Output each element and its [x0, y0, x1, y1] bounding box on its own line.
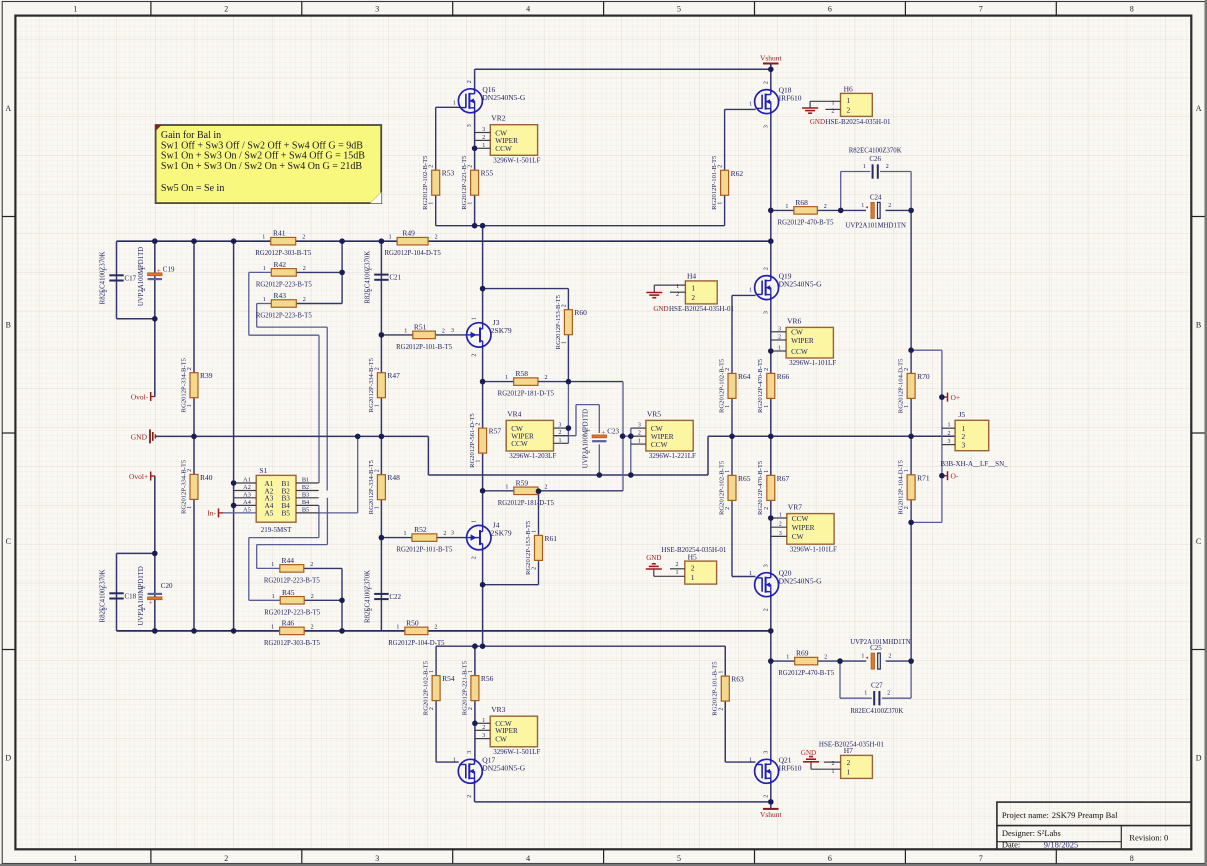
- svg-text:2: 2: [187, 367, 193, 370]
- svg-text:1: 1: [103, 268, 109, 271]
- svg-text:2: 2: [367, 608, 373, 611]
- wire Q17 gate loop: [436, 645, 725, 647]
- wire C24 line: [841, 209, 866, 211]
- svg-text:A5: A5: [243, 506, 251, 513]
- svg-text:DN2540N5-G: DN2540N5-G: [779, 577, 822, 586]
- potentiometer VR2: [490, 125, 537, 156]
- svg-text:RG2012P-470-B-T5: RG2012P-470-B-T5: [778, 219, 834, 226]
- wire R63 branch: [724, 646, 726, 675]
- svg-text:R50: R50: [406, 618, 419, 627]
- svg-text:R68: R68: [795, 198, 808, 207]
- resistor R46: [280, 627, 305, 635]
- svg-text:1: 1: [271, 562, 274, 568]
- svg-text:R82EC4100Z370K: R82EC4100Z370K: [364, 570, 371, 623]
- wire R44 R45 right link: [304, 567, 342, 569]
- svg-text:2: 2: [847, 758, 851, 767]
- svg-text:Sw5 On = Se in: Sw5 On = Se in: [161, 183, 224, 194]
- svg-text:RG2012P-104-D-T5: RG2012P-104-D-T5: [384, 250, 441, 257]
- svg-text:GND: GND: [131, 432, 148, 441]
- svg-text:C18: C18: [125, 592, 137, 600]
- svg-text:C24: C24: [870, 193, 882, 201]
- svg-text:2: 2: [778, 335, 781, 341]
- svg-text:1: 1: [764, 470, 770, 473]
- wire C27 loop: [839, 661, 841, 698]
- wire R70 top jog: [911, 349, 942, 351]
- svg-text:UVP2A101MHD1TN: UVP2A101MHD1TN: [850, 639, 911, 646]
- svg-text:3: 3: [451, 531, 454, 537]
- svg-text:RG2012P-102-B-T5: RG2012P-102-B-T5: [422, 155, 429, 210]
- svg-text:RG2012P-303-B-T5: RG2012P-303-B-T5: [264, 640, 320, 647]
- wire C21 R47 R48 spine: [380, 241, 382, 631]
- svg-text:1: 1: [505, 484, 508, 490]
- svg-text:R52: R52: [414, 525, 427, 534]
- svg-text:1: 1: [374, 404, 380, 407]
- wire Q16 gate loop: [436, 106, 460, 108]
- net Vshunt bottom: [763, 808, 779, 810]
- svg-text:3: 3: [778, 326, 781, 332]
- wire C19 branch: [154, 241, 156, 396]
- resistor R68: [794, 207, 817, 215]
- svg-text:WIPER: WIPER: [792, 523, 815, 532]
- svg-text:2: 2: [764, 507, 770, 510]
- svg-text:CW: CW: [792, 532, 804, 541]
- svg-text:2: 2: [561, 304, 567, 307]
- svg-text:1: 1: [141, 586, 147, 589]
- wire C23 branch: [598, 405, 600, 433]
- svg-text:2: 2: [468, 165, 474, 168]
- svg-text:2: 2: [374, 367, 380, 370]
- svg-text:RG2012P-101-B-T5: RG2012P-101-B-T5: [396, 344, 452, 351]
- svg-text:RG2012P-470-B-T5: RG2012P-470-B-T5: [757, 460, 764, 515]
- ground: [646, 292, 662, 294]
- svg-text:B: B: [6, 321, 11, 330]
- svg-text:CCW: CCW: [495, 144, 512, 153]
- resistor R60: [564, 310, 572, 335]
- wire O- jog: [941, 445, 943, 523]
- svg-text:2: 2: [434, 624, 437, 630]
- svg-text:1: 1: [904, 469, 910, 472]
- svg-text:2: 2: [311, 624, 314, 630]
- svg-text:2: 2: [476, 423, 482, 426]
- svg-text:1: 1: [532, 530, 538, 533]
- port O+: [947, 393, 949, 402]
- svg-text:RG2012P-101-B-T5: RG2012P-101-B-T5: [712, 661, 719, 716]
- svg-text:2: 2: [779, 522, 782, 528]
- title block: [997, 802, 1191, 849]
- svg-text:1: 1: [396, 624, 399, 630]
- svg-text:1: 1: [785, 204, 788, 210]
- wire R59 line: [483, 490, 514, 492]
- transistor Q21: [755, 759, 779, 783]
- svg-text:RG2012P-223-B-T5: RG2012P-223-B-T5: [264, 609, 320, 616]
- svg-text:2: 2: [141, 607, 147, 610]
- wire top bus: [117, 240, 771, 242]
- capacitor C27: [873, 691, 875, 705]
- svg-text:4: 4: [526, 854, 530, 863]
- svg-text:1: 1: [367, 587, 373, 590]
- svg-text:3: 3: [482, 127, 485, 133]
- svg-text:1: 1: [585, 429, 591, 432]
- net Vshunt top: [763, 63, 779, 65]
- svg-text:3: 3: [467, 751, 473, 754]
- svg-text:GND: GND: [810, 118, 825, 126]
- svg-text:2: 2: [824, 204, 827, 210]
- svg-text:3296W-1-221LF: 3296W-1-221LF: [649, 452, 696, 460]
- wire VR5 pin tie: [630, 428, 632, 475]
- svg-text:2: 2: [467, 795, 473, 798]
- svg-text:3296W-1-101LF: 3296W-1-101LF: [790, 545, 837, 553]
- svg-text:B1: B1: [302, 477, 309, 484]
- wire R43 pin1 to B2 route: [257, 303, 272, 305]
- wire VR4 pin tie: [567, 382, 569, 444]
- svg-text:2: 2: [718, 708, 724, 711]
- svg-text:R55: R55: [481, 169, 494, 178]
- transistor Q17: [458, 759, 482, 783]
- svg-text:R53: R53: [442, 169, 455, 178]
- svg-text:2: 2: [442, 328, 445, 334]
- wire Q20 gate R65: [731, 436, 733, 475]
- svg-text:2: 2: [367, 289, 373, 292]
- svg-text:R41: R41: [273, 229, 286, 238]
- svg-text:2: 2: [676, 562, 679, 568]
- svg-text:Date:: Date:: [1002, 840, 1020, 850]
- svg-text:1: 1: [864, 691, 867, 697]
- svg-text:A2: A2: [243, 484, 251, 491]
- port O-: [947, 471, 949, 480]
- svg-text:Ovol+: Ovol+: [129, 472, 148, 481]
- resistor R53: [432, 170, 440, 195]
- svg-text:Revision: 0: Revision: 0: [1129, 832, 1168, 842]
- resistor R63: [721, 676, 729, 701]
- svg-text:3296W-1-501LF: 3296W-1-501LF: [493, 157, 540, 165]
- svg-text:6: 6: [828, 4, 832, 13]
- svg-text:RG2012P-470-B-T5: RG2012P-470-B-T5: [757, 358, 764, 413]
- svg-text:1: 1: [832, 769, 835, 775]
- svg-text:B2: B2: [302, 484, 309, 491]
- svg-text:+: +: [149, 598, 153, 606]
- svg-text:2: 2: [763, 608, 769, 611]
- wire R51 line: [381, 334, 412, 336]
- svg-text:2: 2: [824, 655, 827, 661]
- svg-text:1: 1: [141, 267, 147, 270]
- svg-text:HSE-B20254-035H-01: HSE-B20254-035H-01: [669, 305, 734, 313]
- svg-text:2: 2: [443, 531, 446, 537]
- capacitor C21: [374, 274, 388, 276]
- svg-text:6: 6: [828, 854, 832, 863]
- wire Q21 gate: [724, 646, 726, 762]
- svg-text:B5: B5: [302, 506, 309, 513]
- svg-text:1: 1: [403, 531, 406, 537]
- svg-text:2: 2: [832, 761, 835, 767]
- svg-text:R70: R70: [917, 372, 930, 381]
- switch S1: [256, 475, 296, 522]
- svg-text:2: 2: [847, 105, 851, 114]
- svg-text:2SK79: 2SK79: [491, 326, 512, 335]
- svg-text:Sw1 On + Sw3 On / Sw2 Off +: Sw1 On + Sw3 On / Sw2 Off + Sw4 Off G = …: [161, 151, 365, 162]
- svg-text:RG2012P-303-B-T5: RG2012P-303-B-T5: [255, 250, 311, 257]
- wire R61 branch: [483, 584, 539, 586]
- svg-text:3: 3: [559, 423, 562, 429]
- svg-text:2: 2: [725, 507, 731, 510]
- svg-text:RG2012P-101-B-T5: RG2012P-101-B-T5: [711, 155, 718, 210]
- svg-text:1: 1: [482, 718, 485, 724]
- svg-text:1: 1: [691, 283, 695, 292]
- svg-text:R59: R59: [516, 478, 529, 487]
- svg-text:1: 1: [262, 235, 265, 241]
- svg-text:1: 1: [482, 143, 485, 149]
- svg-text:R62: R62: [731, 169, 744, 178]
- svg-text:C19: C19: [163, 266, 175, 274]
- wire right column R70 R71: [910, 210, 912, 373]
- svg-text:D: D: [5, 754, 11, 763]
- svg-text:CCW: CCW: [651, 440, 668, 449]
- capacitor C24: [871, 202, 874, 218]
- svg-text:2: 2: [311, 594, 314, 600]
- svg-text:Vshunt: Vshunt: [760, 810, 783, 819]
- port GND: [149, 429, 151, 443]
- svg-text:2: 2: [467, 80, 473, 83]
- svg-text:1: 1: [832, 100, 835, 106]
- svg-text:2: 2: [103, 289, 109, 292]
- svg-text:C: C: [6, 537, 11, 546]
- potentiometer VR4: [506, 420, 553, 451]
- capacitor C26: [872, 164, 874, 178]
- svg-text:RG2012P-470-B-T5: RG2012P-470-B-T5: [778, 670, 834, 677]
- svg-text:D: D: [1196, 754, 1202, 763]
- svg-text:RG2012P-221-B-T5: RG2012P-221-B-T5: [461, 155, 468, 210]
- svg-text:2: 2: [141, 288, 147, 291]
- ground: [652, 563, 656, 565]
- svg-text:1: 1: [559, 438, 562, 444]
- svg-text:R60: R60: [574, 308, 587, 317]
- resistor R47: [377, 373, 385, 398]
- svg-text:R82EC4100Z370K: R82EC4100Z370K: [364, 251, 371, 304]
- svg-text:3: 3: [638, 423, 641, 429]
- capacitor C20: [148, 597, 162, 600]
- svg-text:1: 1: [676, 284, 679, 290]
- port Ovol-: [150, 392, 152, 401]
- resistor R55: [471, 170, 479, 195]
- svg-text:B5: B5: [282, 510, 291, 518]
- svg-text:R64: R64: [738, 372, 751, 381]
- port In-: [218, 508, 220, 517]
- svg-text:2: 2: [303, 266, 306, 272]
- svg-text:Sw1 On + Sw3 On / Sw2 On + S: Sw1 On + Sw3 On / Sw2 On + Sw4 On G = 21…: [161, 161, 362, 172]
- svg-text:3: 3: [451, 328, 454, 334]
- svg-text:H5: H5: [688, 552, 697, 561]
- resistor R43: [271, 300, 296, 308]
- svg-text:VR3: VR3: [491, 705, 505, 714]
- svg-text:1: 1: [725, 405, 731, 408]
- svg-text:2: 2: [888, 654, 891, 660]
- svg-text:1: 1: [863, 164, 866, 170]
- svg-text:2: 2: [763, 795, 769, 798]
- svg-text:1: 1: [749, 101, 752, 107]
- resistor R71: [907, 475, 915, 500]
- svg-text:1: 1: [453, 101, 456, 107]
- svg-text:R58: R58: [516, 369, 529, 378]
- wire top Vshunt rail: [475, 68, 771, 70]
- resistor R45: [280, 597, 304, 605]
- svg-text:1: 1: [676, 570, 679, 576]
- resistor R62: [721, 170, 729, 195]
- svg-text:3296W-1-501LF: 3296W-1-501LF: [493, 748, 540, 756]
- svg-text:DN2540N5-G: DN2540N5-G: [482, 93, 525, 102]
- connector H7: [841, 755, 873, 778]
- svg-text:GND: GND: [653, 305, 668, 313]
- svg-text:2: 2: [482, 725, 485, 731]
- svg-text:2: 2: [310, 562, 313, 568]
- svg-text:DN2540N5-G: DN2540N5-G: [779, 280, 822, 289]
- wire bottom Vshunt rail: [475, 801, 771, 803]
- wire Q19 gate R64: [732, 294, 756, 296]
- svg-text:A5: A5: [265, 510, 274, 518]
- resistor R42: [271, 269, 296, 277]
- svg-text:H4: H4: [687, 272, 696, 281]
- svg-text:RG2012P-104-D-T5: RG2012P-104-D-T5: [388, 640, 445, 647]
- resistor R61: [535, 535, 543, 560]
- wire C20 branch: [154, 476, 156, 631]
- svg-text:2: 2: [472, 556, 478, 559]
- connector H4: [685, 281, 717, 304]
- resistor R52: [412, 534, 437, 542]
- svg-text:GND: GND: [801, 749, 816, 757]
- svg-text:UVP2A100MPD1TD: UVP2A100MPD1TD: [138, 566, 145, 625]
- resistor R69: [795, 657, 818, 665]
- svg-text:1: 1: [103, 586, 109, 589]
- svg-text:R57: R57: [489, 427, 502, 436]
- svg-text:3: 3: [482, 733, 485, 739]
- svg-text:2: 2: [303, 297, 306, 303]
- svg-text:3: 3: [763, 125, 769, 128]
- svg-text:R82EC4100Z370K: R82EC4100Z370K: [100, 251, 107, 304]
- svg-text:R49: R49: [402, 229, 415, 238]
- svg-text:RG2012P-223-B-T5: RG2012P-223-B-T5: [264, 577, 320, 584]
- svg-text:2: 2: [691, 293, 695, 302]
- svg-text:C23: C23: [607, 428, 619, 436]
- svg-text:2: 2: [224, 4, 228, 13]
- svg-text:1: 1: [476, 460, 482, 463]
- svg-text:In-: In-: [207, 509, 216, 518]
- svg-text:2: 2: [725, 368, 731, 371]
- svg-text:2: 2: [468, 707, 474, 710]
- svg-text:1: 1: [472, 317, 478, 320]
- svg-text:RG2012P-181-D-T5: RG2012P-181-D-T5: [498, 391, 555, 398]
- note Gain for Bal in: [156, 125, 382, 203]
- svg-text:4: 4: [526, 4, 530, 13]
- svg-text:C27: C27: [871, 682, 883, 690]
- svg-text:B: B: [1196, 321, 1201, 330]
- svg-text:RG2012P-181-D-T5: RG2012P-181-D-T5: [498, 500, 555, 507]
- svg-text:R47: R47: [387, 371, 400, 380]
- svg-text:2SK79 Preamp Bal: 2SK79 Preamp Bal: [1052, 810, 1118, 820]
- resistor R54: [432, 676, 440, 701]
- resistor R44: [280, 565, 304, 573]
- svg-text:1: 1: [718, 671, 724, 674]
- svg-text:RG2012P-223-B-T5: RG2012P-223-B-T5: [256, 281, 312, 288]
- wire R60 branch: [483, 288, 569, 290]
- wire R58 R59 link: [622, 382, 624, 491]
- svg-text:5: 5: [677, 854, 681, 863]
- svg-text:1: 1: [367, 268, 373, 271]
- ground: [809, 756, 813, 758]
- svg-text:2: 2: [187, 469, 193, 472]
- potentiometer VR5: [646, 420, 693, 451]
- wire R52 line: [381, 537, 412, 539]
- wire In+ spine: [233, 241, 235, 631]
- svg-text:2: 2: [544, 484, 547, 490]
- transistor Q20: [755, 573, 779, 597]
- svg-text:R51: R51: [414, 322, 427, 331]
- svg-text:R44: R44: [282, 556, 295, 565]
- svg-text:2: 2: [904, 506, 910, 509]
- junction dots: [152, 238, 158, 244]
- svg-text:1: 1: [847, 96, 851, 105]
- wire B4 to R45 route: [318, 505, 320, 537]
- capacitor C19: [148, 273, 162, 276]
- svg-text:1: 1: [779, 513, 782, 519]
- wire C18 branch: [116, 553, 118, 631]
- transistor J3: [467, 323, 491, 347]
- resistor R66: [767, 373, 775, 398]
- port Ovol+: [150, 472, 152, 481]
- resistor R67: [767, 475, 775, 500]
- svg-text:R67: R67: [777, 474, 790, 483]
- svg-text:RG2012P-221-B-T5: RG2012P-221-B-T5: [461, 660, 468, 715]
- wire B5 to rail: [319, 512, 358, 514]
- svg-text:C22: C22: [389, 593, 401, 601]
- wire Q17 source: [474, 782, 476, 802]
- resistor R39: [190, 373, 198, 398]
- capacitor C22: [374, 593, 388, 595]
- svg-text:2: 2: [224, 854, 228, 863]
- svg-text:2: 2: [832, 109, 835, 115]
- svg-text:R54: R54: [442, 674, 455, 683]
- wire R39 branch: [193, 241, 195, 436]
- resistor R40: [190, 474, 198, 499]
- svg-text:1: 1: [778, 346, 781, 352]
- svg-text:2: 2: [948, 431, 951, 437]
- svg-text:2: 2: [559, 430, 562, 436]
- svg-text:B3: B3: [302, 491, 309, 498]
- svg-text:RG2012P-101-B-T5: RG2012P-101-B-T5: [396, 547, 452, 554]
- svg-text:Designer: S²Labs: Designer: S²Labs: [1002, 828, 1061, 838]
- svg-text:1: 1: [861, 203, 864, 209]
- svg-text:1: 1: [505, 375, 508, 381]
- connector H5: [685, 561, 717, 584]
- svg-text:S1: S1: [259, 466, 267, 475]
- svg-text:1: 1: [429, 670, 435, 673]
- svg-text:1: 1: [847, 767, 851, 776]
- svg-text:1: 1: [725, 470, 731, 473]
- wire R68 line: [771, 209, 794, 211]
- svg-text:R82EC4100Z370K: R82EC4100Z370K: [850, 708, 903, 715]
- transistor J4: [467, 525, 491, 549]
- svg-text:R40: R40: [200, 473, 213, 482]
- svg-text:HSE-B20254-035H-01: HSE-B20254-035H-01: [826, 118, 891, 126]
- svg-text:8: 8: [1130, 4, 1134, 13]
- svg-text:CCW: CCW: [792, 514, 809, 523]
- svg-text:CCW: CCW: [791, 347, 808, 356]
- svg-text:VR7: VR7: [788, 503, 802, 512]
- svg-text:2: 2: [763, 267, 769, 270]
- svg-text:2: 2: [435, 235, 438, 241]
- svg-text:3: 3: [763, 564, 769, 567]
- connector H6: [841, 93, 873, 116]
- wire VR4 wiper jog: [553, 435, 576, 437]
- svg-text:DN2540N5-G: DN2540N5-G: [482, 763, 525, 772]
- potentiometer VR3: [490, 716, 537, 747]
